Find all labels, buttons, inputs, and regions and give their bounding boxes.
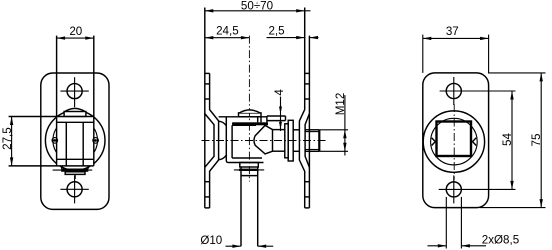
svg-text:54: 54 bbox=[501, 133, 514, 146]
svg-text:20: 20 bbox=[69, 25, 82, 38]
svg-text:27,5: 27,5 bbox=[1, 127, 14, 150]
svg-text:M12: M12 bbox=[334, 93, 347, 116]
svg-text:75: 75 bbox=[530, 134, 543, 147]
svg-text:2,5: 2,5 bbox=[268, 24, 284, 37]
svg-text:50÷70: 50÷70 bbox=[241, 0, 273, 13]
svg-text:37: 37 bbox=[446, 25, 459, 38]
svg-text:2xØ8,5: 2xØ8,5 bbox=[482, 234, 519, 247]
svg-text:4: 4 bbox=[273, 89, 286, 96]
svg-text:Ø10: Ø10 bbox=[200, 234, 222, 247]
svg-text:24,5: 24,5 bbox=[216, 24, 239, 37]
